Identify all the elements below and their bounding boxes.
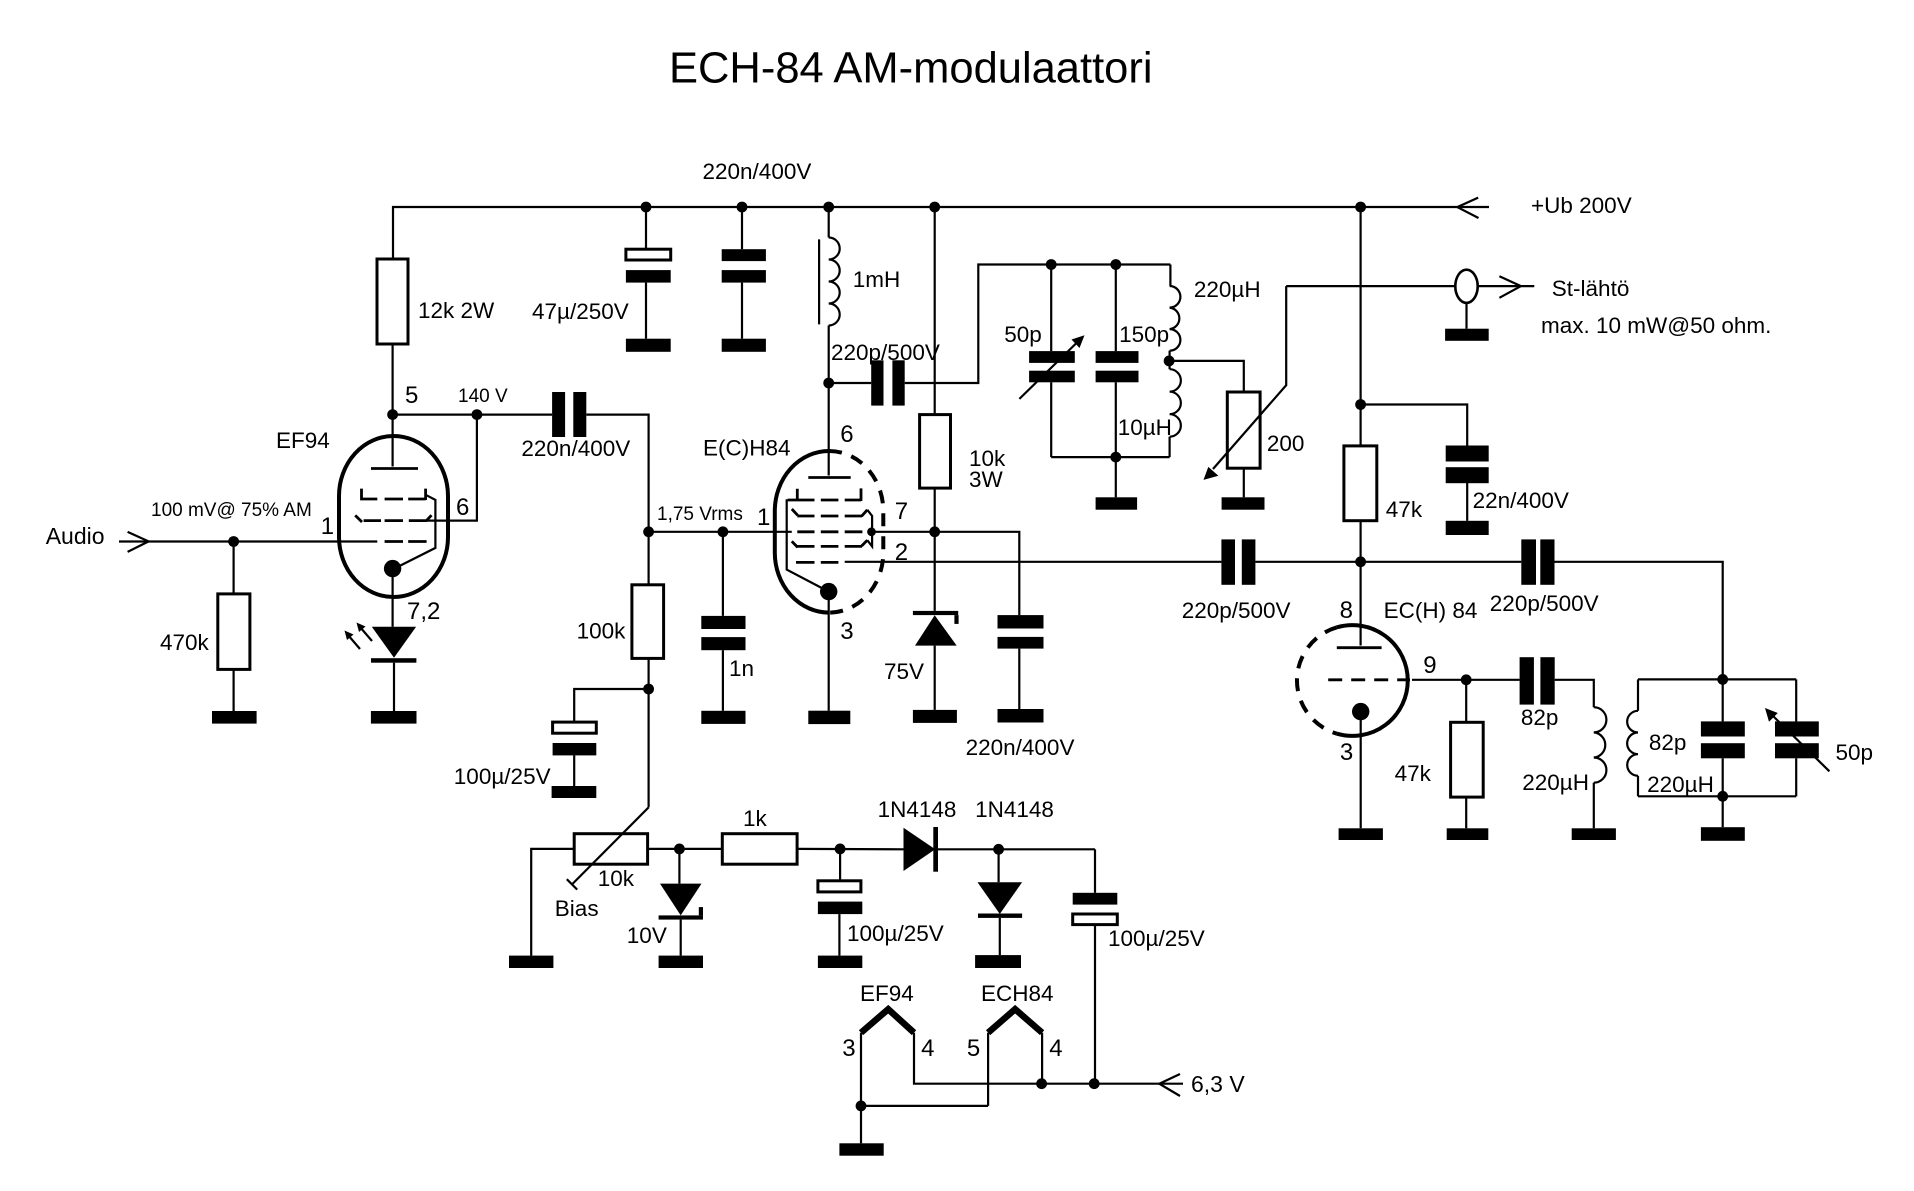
ground: 75V zener — [913, 710, 957, 723]
inductor 220uH tank — [1627, 679, 1638, 796]
svg-text:1mH: 1mH — [853, 267, 901, 292]
svg-text:82p: 82p — [1521, 705, 1559, 730]
svg-text:220n/400V: 220n/400V — [703, 159, 812, 184]
wire: junction to 22n — [1361, 405, 1468, 446]
wire: heater return to ground — [860, 1106, 862, 1143]
wire: EF94 cathode lead — [392, 569, 394, 627]
svg-text:EC(H) 84: EC(H) 84 — [1384, 598, 1478, 623]
LED indicator (cathode bias) — [371, 627, 416, 711]
capacitor 100u/25V heater line — [1073, 849, 1118, 1083]
svg-text:100µ/25V: 100µ/25V — [1108, 926, 1205, 951]
EF94 screen grid g2 row — [355, 515, 431, 522]
svg-text:12k 2W: 12k 2W — [418, 298, 495, 323]
heater filament ECH84 — [988, 1009, 1042, 1032]
wire: 220p right to tank — [1555, 562, 1723, 680]
resistor 47k anode load — [1344, 446, 1377, 562]
wire: E(C)H84 cathode pin3 lead — [828, 592, 830, 711]
wire: tank bottom to ground — [1722, 796, 1724, 827]
wire: audio input to EF94 grid — [119, 540, 377, 542]
tube EC(H)84 envelope left dashed — [1297, 627, 1337, 733]
svg-text:50p: 50p — [1836, 740, 1874, 765]
svg-text:140 V: 140 V — [458, 386, 508, 407]
wire: tap to 200 pot — [1169, 361, 1244, 392]
potentiometer 200 body — [1227, 392, 1260, 468]
LED light arrows — [345, 623, 373, 650]
svg-text:82p: 82p — [1649, 730, 1687, 755]
ground: 200 pot — [1222, 497, 1265, 509]
potentiometer 10k Bias body — [574, 834, 647, 865]
resistor 470k — [218, 542, 250, 712]
wire: pin9 grid out — [1412, 679, 1520, 681]
wire: connector shield to ground — [1465, 303, 1467, 329]
svg-text:22n/400V: 22n/400V — [1473, 488, 1569, 513]
EF94 control grid g1 dashes — [385, 540, 427, 543]
E(C)H84 internal g1-cathode tie — [787, 499, 829, 591]
wire: pin1 net — [649, 531, 792, 533]
wire: ECH84 pin5 heater leg — [987, 1033, 989, 1106]
ground: 1n cap — [701, 711, 745, 724]
svg-text:E(C)H84: E(C)H84 — [703, 436, 791, 461]
inductor 1mH — [819, 207, 840, 383]
EC(H)84 grid dashes — [1328, 678, 1410, 681]
E(C)H84 g2/g4 tie bar to pin 7 — [867, 510, 872, 547]
svg-text:10V: 10V — [627, 923, 667, 948]
wire: 1k to diode node — [797, 848, 903, 851]
wire: EF94 pin4 heater leg — [914, 1033, 1159, 1084]
node: 10V zener junction — [674, 844, 685, 855]
ground: E(C)H84 cathode — [808, 711, 850, 724]
svg-text:5: 5 — [967, 1035, 980, 1062]
svg-text:3: 3 — [842, 1035, 855, 1062]
node: diode junction — [993, 844, 1004, 855]
EF94 anode — [371, 415, 418, 469]
svg-text:7: 7 — [895, 498, 908, 525]
ground: 220n bypass — [998, 709, 1044, 723]
E(C)H84 anode — [808, 383, 850, 478]
node: audio/470k junction — [228, 536, 239, 547]
svg-text:ECH-84 AM-modulaattori: ECH-84 AM-modulaattori — [669, 45, 1153, 93]
capacitor 82p tank — [1701, 679, 1745, 796]
diode 1N4148 series — [904, 827, 1096, 872]
inductor 220uH tapped (lower half = 10uH) — [1170, 361, 1181, 457]
capacitor 220n/400V coupling — [552, 392, 586, 437]
wire: ECH84 pin4 heater leg — [1041, 1033, 1043, 1084]
svg-text:6,3 V: 6,3 V — [1191, 1071, 1245, 1097]
node: pin1/1n junction — [718, 526, 729, 537]
wire: bias wiper feed — [647, 689, 649, 807]
svg-text:1: 1 — [321, 513, 334, 540]
arrow: 6,3V chevron — [1159, 1074, 1183, 1096]
svg-text:47k: 47k — [1386, 497, 1423, 522]
svg-text:10k: 10k — [598, 866, 635, 891]
ground: St-lahto connector — [1445, 329, 1489, 341]
svg-text:220µH: 220µH — [1522, 770, 1589, 795]
svg-text:1k: 1k — [743, 806, 768, 831]
tube EC(H)84 envelope right solid — [1337, 625, 1408, 736]
arrow: 200 pot wiper — [1204, 286, 1287, 480]
svg-text:100 mV@ 75% AM: 100 mV@ 75% AM — [151, 500, 312, 521]
svg-text:220p/500V: 220p/500V — [1182, 598, 1291, 623]
svg-text:200: 200 — [1267, 431, 1305, 456]
capacitor 150p — [1096, 265, 1139, 458]
wire: heater return bus — [861, 1105, 988, 1107]
tube E(C)H84 envelope right dashed — [829, 451, 883, 613]
node: 140V — [472, 409, 483, 420]
svg-text:3: 3 — [840, 618, 853, 645]
ground: 1N4148 shunt — [975, 955, 1021, 968]
node: bus/50p junction — [1046, 259, 1057, 270]
svg-text:10µH: 10µH — [1118, 415, 1172, 440]
wire: tank top bus — [1638, 678, 1796, 680]
svg-text:6: 6 — [840, 421, 853, 448]
svg-text:50p: 50p — [1004, 322, 1042, 347]
node: pin2/47k/pin8 junction — [1355, 556, 1366, 567]
arrow: 50p variable marker — [1019, 335, 1084, 399]
ground: 100u cathode cap — [552, 786, 597, 798]
ground: heater return — [839, 1143, 883, 1155]
diode 1N4148 shunt — [978, 849, 1023, 955]
ground: 22n cap — [1446, 521, 1489, 535]
node: EF94 pin5 — [387, 409, 398, 420]
ground: tank — [1701, 827, 1745, 841]
svg-text:ECH84: ECH84 — [981, 981, 1054, 1006]
wire: rail to 47k anode load — [1359, 207, 1361, 446]
svg-text:+Ub 200V: +Ub 200V — [1531, 193, 1632, 218]
svg-text:4: 4 — [921, 1035, 934, 1062]
wire: coupling cap to E(C)H84 grid column — [586, 415, 648, 532]
node: rail/47u junction — [641, 202, 652, 213]
arrow: 50p tank variable marker — [1765, 708, 1829, 771]
arrow: audio input chevron — [128, 532, 149, 552]
ground: 470k — [212, 711, 257, 724]
svg-text:100µ/25V: 100µ/25V — [454, 764, 551, 789]
node: 100k bottom / bias feed junction — [643, 684, 654, 695]
wire: St-lahto output line — [1286, 285, 1455, 287]
node: 150p/ground junction — [1110, 452, 1121, 463]
resistor 10k 3W — [920, 207, 951, 532]
node: 1mH/220p/pin6 junction — [823, 378, 834, 389]
node: heater 6.3V / 100u — [1089, 1078, 1100, 1089]
svg-text:470k: 470k — [160, 630, 210, 655]
EC(H)84 anode — [1337, 562, 1382, 648]
EF94 cathode dot — [384, 560, 401, 577]
node: rail/10k3W junction — [929, 202, 940, 213]
svg-text:7,2: 7,2 — [407, 598, 440, 625]
ground: LED/EF94 cathode — [371, 711, 417, 724]
EC(H)84 cathode dot — [1352, 703, 1369, 720]
wire: 200 pot to ground — [1243, 468, 1245, 497]
wire: tank bottom bus — [1051, 456, 1169, 458]
EF94 g3-cathode tie line — [394, 495, 436, 569]
E(C)H84 grid row4 — [792, 540, 868, 547]
svg-text:9: 9 — [1423, 652, 1436, 679]
wire: EF94 pin6 to 140V column — [427, 415, 477, 521]
svg-text:4: 4 — [1049, 1035, 1062, 1062]
capacitor 47u/250V electrolytic — [626, 207, 671, 339]
connector: St-lahto output — [1455, 270, 1477, 303]
node: coil tap — [1164, 356, 1175, 367]
svg-text:150p: 150p — [1119, 322, 1169, 347]
svg-text:8: 8 — [1340, 597, 1353, 624]
tube EF94 envelope — [339, 436, 448, 597]
svg-text:3W: 3W — [969, 467, 1004, 492]
svg-text:1N4148: 1N4148 — [975, 797, 1054, 822]
svg-text:EF94: EF94 — [860, 981, 914, 1006]
svg-text:220p/500V: 220p/500V — [831, 340, 940, 365]
wire: connector to arrow — [1478, 285, 1535, 287]
wire: 150p node to ground — [1115, 457, 1117, 497]
ground: 47u cap — [626, 339, 671, 352]
capacitor 220p/500V right — [1521, 539, 1554, 584]
capacitor 220p/500V (anode) — [829, 360, 905, 405]
node: pin9/47k junction — [1461, 674, 1472, 685]
E(C)H84 grid row2 — [792, 509, 868, 516]
wire: 82p to 220uH — [1555, 680, 1594, 707]
svg-text:max. 10 mW@50 ohm.: max. 10 mW@50 ohm. — [1541, 313, 1771, 338]
svg-text:100µ/25V: 100µ/25V — [847, 921, 944, 946]
ground: 150p tank — [1096, 497, 1138, 509]
inductor 220uH tapped (upper half) — [1170, 265, 1181, 361]
resistor 1k — [722, 834, 797, 865]
svg-text:47k: 47k — [1395, 761, 1432, 786]
svg-text:47µ/250V: 47µ/250V — [532, 299, 629, 324]
node: tank top junction — [1717, 674, 1728, 685]
zener diode 75V — [913, 532, 959, 710]
svg-text:220p/500V: 220p/500V — [1490, 591, 1599, 616]
wire: EF94 pin3 heater leg — [860, 1033, 862, 1106]
capacitor 100u/25V bias filter — [818, 849, 862, 956]
svg-text:220µH: 220µH — [1194, 277, 1261, 302]
node: heater 6.3V / ECH84 pin4 — [1036, 1078, 1047, 1089]
wire: junction to 100u cathode cap — [574, 689, 648, 722]
arrow: +Ub 200V input chevron — [1457, 198, 1478, 218]
ground: 220uH osc — [1572, 828, 1616, 840]
svg-text:220n/400V: 220n/400V — [966, 735, 1075, 760]
wire: 12k to pin5 node — [392, 344, 394, 415]
svg-text:1,75 Vrms: 1,75 Vrms — [657, 504, 743, 525]
node: rail/220n junction — [737, 202, 748, 213]
svg-text:220µH: 220µH — [1647, 772, 1714, 797]
E(C)H84 grid row3 (signal grid) dashes — [797, 530, 862, 533]
ground: 220n cap — [722, 339, 766, 352]
svg-text:1N4148: 1N4148 — [878, 797, 957, 822]
capacitor 82p series — [1520, 657, 1555, 704]
ground: 100u bias filter — [818, 956, 862, 968]
resistor 47k grid leak — [1451, 680, 1484, 829]
node: 47k/22n junction — [1355, 399, 1366, 410]
ground: bias pot — [509, 956, 553, 968]
svg-text:Audio: Audio — [46, 523, 105, 549]
svg-text:St-lähtö: St-lähtö — [1552, 276, 1630, 301]
ground: 47k grid leak — [1447, 828, 1489, 840]
wire: bias pot right to 10V node — [648, 848, 723, 850]
wire: pin7 node to 220n bypass — [935, 532, 1020, 615]
E(C)H84 grid row5 dashes — [796, 561, 838, 564]
svg-text:5: 5 — [405, 382, 418, 409]
capacitor 50p variable tank — [1775, 679, 1819, 796]
node: rail/47k junction — [1355, 202, 1366, 213]
arrow: bias pot wiper diagonal — [567, 807, 649, 889]
wire: pin7 to 10k3W node — [872, 531, 935, 533]
node: pin7/10k/zener junction — [929, 526, 940, 537]
node: tank bottom junction — [1717, 791, 1728, 802]
svg-text:1n: 1n — [729, 656, 754, 681]
wire: 140V node to coupling cap — [477, 414, 552, 416]
wire: 220p to 50p/150p bus — [905, 265, 1171, 384]
capacitor 1n — [701, 532, 745, 711]
node: 1k/100u junction — [835, 844, 846, 855]
node: heater return junction — [856, 1101, 867, 1112]
node: pin1 net / 100k top — [643, 526, 654, 537]
wire: pin2 line from tube to left 220p — [845, 561, 1222, 563]
node: bus/150p junction — [1110, 259, 1121, 270]
ground: EC(H)84 cathode — [1339, 828, 1383, 840]
svg-text:3: 3 — [1340, 739, 1353, 766]
wire: EC(H)84 cathode pin3 lead — [1360, 712, 1362, 829]
arrow: St-lahto chevron — [1499, 276, 1521, 298]
E(C)H84 cathode dot — [820, 583, 837, 600]
svg-text:75V: 75V — [884, 659, 924, 684]
wire: 220p left to 220p right — [1255, 561, 1521, 563]
wire: bias pot left to ground — [531, 849, 574, 956]
resistor 12k 2W — [377, 259, 408, 344]
capacitor 100u/25V cathode — [553, 722, 597, 786]
heater filament EF94 — [861, 1009, 914, 1032]
zener diode 10V — [659, 849, 703, 956]
E(C)H84 grid row1 with end ticks — [788, 488, 861, 501]
capacitor 220n/400V (second from rail) — [722, 207, 766, 339]
capacitor 220n/400V screen bypass — [998, 615, 1044, 709]
wire: tank bottom bus — [1638, 795, 1796, 797]
capacitor 22n/400V — [1446, 446, 1489, 521]
svg-text:220n/400V: 220n/400V — [521, 436, 630, 461]
resistor 100k — [632, 532, 664, 689]
node: pin7 internal dot — [867, 527, 876, 536]
svg-text:1: 1 — [757, 504, 770, 531]
svg-text:100k: 100k — [577, 619, 627, 644]
svg-text:6: 6 — [456, 494, 469, 521]
EF94 grid g3 (top dashed row with end ticks) — [362, 489, 426, 500]
inductor 220uH osc — [1594, 707, 1607, 828]
svg-text:EF94: EF94 — [276, 428, 330, 453]
tube E(C)H84 envelope left solid — [775, 451, 829, 613]
ground: 10V zener — [659, 956, 703, 968]
capacitor 50p variable — [1029, 265, 1075, 458]
capacitor 220p/500V left — [1221, 539, 1255, 584]
wire: +Ub top rail — [393, 207, 1489, 259]
node: rail/1mH junction — [823, 202, 834, 213]
svg-text:Bias: Bias — [555, 896, 599, 921]
wire: pin5 to 140V node — [393, 414, 477, 416]
